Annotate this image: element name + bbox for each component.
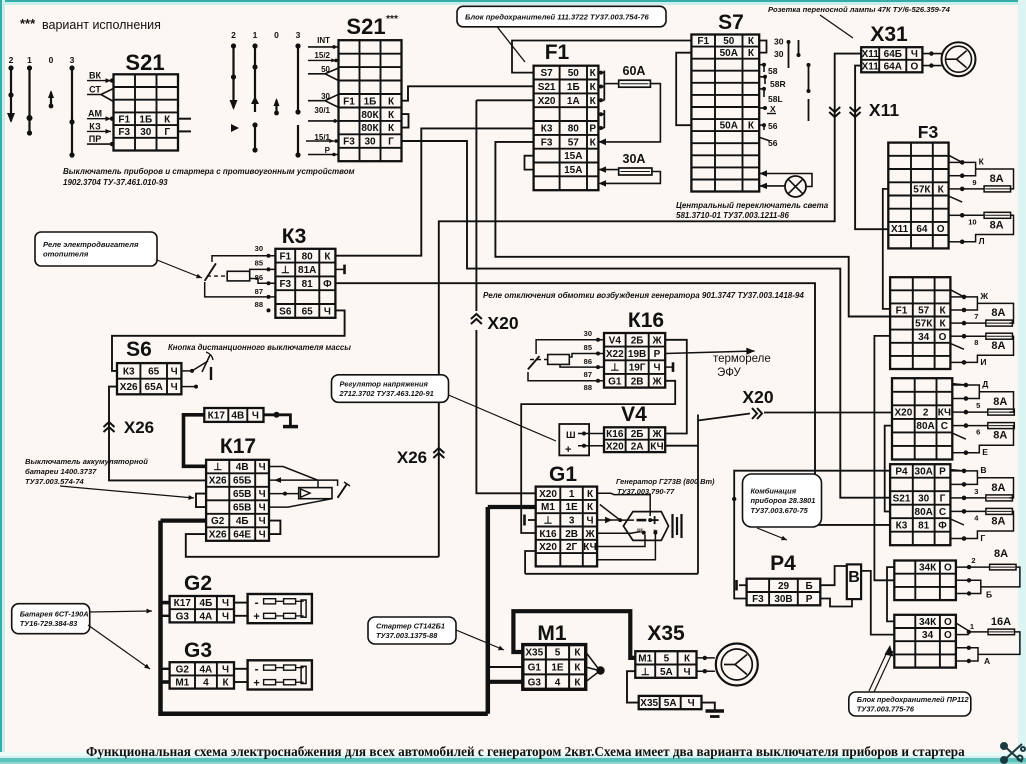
svg-text:30А: 30А: [915, 467, 933, 478]
К3 relay wiring: [212, 256, 275, 262]
G1 ground terminal left: [528, 519, 536, 521]
svg-text:7: 7: [974, 312, 978, 321]
ammeter В box: [847, 564, 861, 599]
lead 15/2: [308, 58, 336, 62]
svg-text:Выключатель аккумуляторной: Выключатель аккумуляторной: [25, 457, 148, 466]
label thermal relay: [713, 353, 771, 379]
svg-text:5А: 5А: [664, 698, 677, 709]
svg-text:А: А: [984, 656, 990, 666]
svg-text:88: 88: [255, 300, 263, 309]
S7 right 30 bracket: [759, 41, 766, 53]
svg-text:В: В: [848, 569, 860, 586]
svg-text:4А: 4А: [200, 611, 213, 622]
svg-text:Реле отключения обмотки возбуж: Реле отключения обмотки возбуждения гене…: [483, 291, 804, 300]
К3 pin dots: [267, 254, 271, 258]
svg-text:INT: INT: [317, 36, 330, 45]
svg-text:G1: G1: [608, 376, 622, 387]
svg-text:0: 0: [274, 30, 279, 40]
svg-text:F3: F3: [541, 137, 553, 148]
svg-text:G2: G2: [211, 516, 225, 527]
thick wire G1.М1 row: [488, 505, 536, 509]
svg-text:X20: X20: [487, 313, 518, 333]
wire X20 vertical to bottom net: [697, 415, 699, 574]
svg-text:8А: 8А: [991, 307, 1005, 319]
callout arrow to М1: [456, 630, 504, 650]
svg-text:S21: S21: [346, 14, 385, 39]
svg-text:О: О: [944, 563, 952, 574]
svg-text:К16: К16: [606, 429, 624, 440]
svg-text:Ч: Ч: [171, 367, 178, 378]
svg-text:V4: V4: [609, 335, 622, 346]
svg-text:X20: X20: [538, 96, 556, 107]
svg-text:Р: Р: [939, 467, 946, 478]
К3 coil: [227, 271, 250, 281]
connector X35-5А mini table: [639, 696, 702, 709]
S21-variant pin labels: [314, 36, 330, 155]
svg-text:80А: 80А: [915, 507, 933, 518]
svg-text:G2: G2: [184, 572, 212, 595]
К16 ground stub row3: [665, 366, 672, 368]
svg-text:4: 4: [555, 678, 561, 689]
contact link vertical: [964, 297, 977, 310]
bracket 34К net E-F: [887, 567, 894, 621]
wire P4.Б to В box: [820, 566, 847, 585]
F1 right stub row4: [598, 113, 604, 115]
svg-text:Ч: Ч: [259, 462, 266, 473]
svg-text:30: 30: [140, 127, 152, 138]
svg-text:2712.3702 ТУ37.463.120-91: 2712.3702 ТУ37.463.120-91: [339, 389, 434, 398]
F1 row6 stub: [598, 141, 604, 143]
portable lamp socket symbol: [942, 42, 976, 76]
svg-text:О: О: [944, 630, 952, 641]
svg-text:F1: F1: [896, 306, 908, 317]
К16 coil: [548, 355, 570, 365]
svg-text:К: К: [748, 36, 755, 47]
F bracket rows3-4: [956, 648, 978, 661]
callout: heater motor relay: [35, 232, 157, 266]
svg-text:G3: G3: [184, 639, 212, 662]
wire fuse2 loop: [966, 425, 988, 427]
svg-text:К: К: [590, 68, 597, 79]
svg-text:15А: 15А: [564, 165, 582, 176]
svg-text:65: 65: [302, 307, 314, 318]
К17 contact: [338, 485, 347, 498]
svg-text:X26: X26: [209, 476, 227, 487]
svg-text:К17: К17: [208, 411, 226, 422]
svg-text:⊥: ⊥: [281, 265, 290, 276]
svg-text:80: 80: [568, 124, 580, 135]
svg-text:56: 56: [768, 121, 778, 131]
position bar 1: [28, 68, 30, 121]
connector P4 table: [747, 579, 821, 606]
connector G2 table: [170, 596, 234, 622]
svg-text:2В: 2В: [631, 376, 644, 387]
wire X20 to fuse C: [764, 412, 892, 414]
svg-text:4Б: 4Б: [236, 516, 249, 527]
svg-text:батареи 1400.3737: батареи 1400.3737: [25, 467, 97, 476]
svg-text:отопителя: отопителя: [43, 250, 89, 259]
svg-text:3: 3: [70, 55, 75, 65]
svg-text:3: 3: [569, 516, 575, 527]
svg-text:2: 2: [971, 556, 975, 565]
svg-text:15/2: 15/2: [314, 51, 330, 60]
svg-text:Ш: Ш: [566, 430, 576, 441]
svg-text:1: 1: [27, 55, 32, 65]
wire to fuse 1: [979, 392, 1013, 412]
svg-text:1Е: 1Е: [565, 502, 578, 513]
svg-text:X20: X20: [539, 489, 557, 500]
svg-text:87: 87: [255, 287, 263, 296]
variant bar 0: [275, 100, 277, 113]
wire 34 net B to E: [874, 336, 894, 580]
fuse table F3-C: [892, 378, 952, 459]
connector V4 table: [604, 427, 665, 452]
callout: instrument cluster: [743, 474, 822, 527]
svg-text:К17: К17: [174, 598, 192, 609]
variant bar 3: [297, 46, 299, 112]
wire fuse D row1 to P4: [734, 471, 890, 599]
svg-text:Г: Г: [164, 127, 170, 138]
svg-text:Ч: Ч: [911, 49, 918, 60]
svg-text:X20: X20: [539, 542, 557, 553]
К3 dashed link: [207, 275, 227, 277]
svg-text:ТУ16-729.384-83: ТУ16-729.384-83: [20, 619, 78, 628]
thick bus bottom: [158, 712, 488, 717]
svg-text:85: 85: [255, 259, 263, 268]
svg-text:К: К: [979, 156, 985, 166]
svg-text:F3: F3: [279, 279, 291, 290]
svg-text:X35: X35: [640, 698, 658, 709]
svg-text:57: 57: [568, 137, 580, 148]
svg-text:F1: F1: [697, 36, 709, 47]
svg-text:8А: 8А: [991, 482, 1005, 494]
svg-text:F1: F1: [279, 251, 291, 262]
svg-text:К: К: [222, 678, 229, 689]
К3 ground stub row2: [337, 268, 345, 270]
svg-text:2: 2: [923, 408, 929, 419]
svg-text:3: 3: [974, 487, 978, 496]
F row2 wire to fuse: [956, 634, 969, 636]
leader line to X31: [820, 15, 853, 38]
svg-text:S7: S7: [718, 11, 744, 34]
svg-text:Р: Р: [806, 594, 813, 605]
F diag row1: [956, 623, 969, 631]
connector S7 table: [691, 35, 759, 192]
svg-text:4В: 4В: [236, 462, 249, 473]
svg-text:К: К: [587, 502, 594, 513]
svg-text:Р: Р: [654, 349, 661, 360]
relay К16 table: [604, 333, 665, 388]
wire X11-64Б net: [439, 54, 861, 557]
svg-text:15А: 15А: [564, 151, 582, 162]
К16 pin dots: [596, 338, 600, 342]
svg-text:80А: 80А: [916, 421, 934, 432]
fuse 7: [986, 320, 1013, 326]
note: variant of execution: [20, 16, 161, 32]
svg-text:Д: Д: [982, 379, 988, 389]
S7 contact dash 3: [808, 63, 810, 93]
К3 contact: [205, 263, 216, 281]
svg-text:Ж: Ж: [651, 429, 662, 440]
fuse 30A: [619, 168, 652, 175]
svg-text:X: X: [770, 104, 776, 114]
svg-text:F3: F3: [752, 594, 764, 605]
S21 variant jumper 80К rows: [402, 114, 409, 128]
svg-text:Реле электродвигателя: Реле электродвигателя: [43, 240, 139, 249]
lead ВК: [87, 78, 111, 83]
svg-text:О: О: [944, 617, 952, 628]
lead 30 fork: [308, 94, 339, 100]
svg-text:87: 87: [584, 370, 592, 379]
svg-text:К: К: [574, 663, 581, 674]
svg-text:Ч: Ч: [688, 698, 695, 709]
svg-text:64А: 64А: [884, 62, 902, 73]
svg-text:2: 2: [9, 55, 14, 65]
caption: central light switch: [676, 201, 829, 220]
wire X20-1 net vertical lower: [476, 330, 535, 493]
connector X31 table: [861, 47, 922, 72]
svg-text:Ч: Ч: [259, 530, 266, 541]
connector S6 table: [117, 363, 181, 394]
wire X20 bottom horizontal: [525, 573, 698, 575]
svg-text:ПР: ПР: [89, 134, 101, 144]
battery symbol G3: [248, 660, 312, 689]
svg-text:S6: S6: [279, 307, 292, 318]
wire fuse1 to contact: [966, 411, 988, 413]
svg-text:2Г: 2Г: [566, 542, 578, 553]
svg-text:30: 30: [774, 37, 784, 47]
S7 right stub 58R: [759, 76, 765, 78]
svg-text:65Б: 65Б: [233, 476, 251, 487]
svg-text:30А: 30А: [623, 152, 646, 166]
contact dots and stubs: [950, 469, 966, 541]
svg-text:Р: Р: [325, 146, 331, 155]
svg-text:С: С: [941, 421, 948, 432]
svg-text:57: 57: [918, 306, 930, 317]
svg-text:S6: S6: [126, 338, 152, 361]
contact link vertical: [966, 385, 979, 399]
svg-text:85: 85: [584, 343, 592, 352]
svg-text:К: К: [587, 489, 594, 500]
variant bar 2: [232, 46, 234, 108]
svg-text:56: 56: [768, 138, 778, 148]
wire S21.К jumper to F1: [402, 86, 534, 100]
svg-text:F3: F3: [918, 122, 939, 142]
svg-text:К: К: [164, 114, 171, 125]
svg-text:***: ***: [20, 16, 36, 31]
svg-text:4А: 4А: [200, 664, 213, 675]
wire В box to fuse F: [861, 571, 894, 635]
svg-text:Ж: Ж: [651, 376, 662, 387]
svg-text:58: 58: [768, 66, 778, 76]
svg-text:Ч: Ч: [222, 611, 229, 622]
svg-text:1Е: 1Е: [551, 663, 564, 674]
svg-text:Ф: Ф: [323, 279, 332, 290]
svg-text:Ч: Ч: [222, 598, 229, 609]
contact link vertical: [964, 471, 977, 485]
svg-text:50: 50: [568, 68, 580, 79]
S21 right stub Г: [178, 130, 192, 132]
S7 contact dash 4: [808, 99, 810, 121]
svg-text:Кнопка дистанционного выключат: Кнопка дистанционного выключателя массы: [168, 343, 351, 352]
G1 generator wiring: [597, 493, 650, 516]
svg-text:К3: К3: [282, 225, 307, 248]
generator symbol G1: [623, 512, 668, 541]
lead 15/1: [306, 139, 334, 143]
svg-text:Г: Г: [940, 494, 946, 505]
М1 starter contact lines: [586, 652, 599, 670]
callout leader to V4: [449, 395, 557, 441]
svg-text:КЧ: КЧ: [650, 442, 663, 453]
svg-text:Ч: Ч: [259, 503, 266, 514]
svg-text:К: К: [939, 319, 946, 330]
svg-text:65В: 65В: [233, 503, 251, 514]
svg-text:КЗ: КЗ: [89, 121, 101, 131]
E row1 wire to fuse: [956, 566, 990, 568]
К17 coil with arrow: [299, 488, 332, 499]
svg-text:Блок предохранителей 111.3722: Блок предохранителей 111.3722 ТУ37.003.7…: [465, 12, 649, 21]
svg-text:64Б: 64Б: [884, 49, 902, 60]
wire X11-64А net: [855, 66, 888, 230]
G2 bus stubs: [161, 601, 170, 605]
svg-text:5: 5: [664, 654, 670, 665]
svg-text:С: С: [939, 507, 946, 518]
lead АМ: [87, 116, 111, 121]
fuse 6: [988, 423, 1015, 429]
svg-text:Ч: Ч: [259, 489, 266, 500]
svg-text:X20: X20: [606, 442, 624, 453]
svg-text:50А: 50А: [720, 48, 738, 59]
fuse 60A: [619, 80, 651, 87]
bracket G1.X20-2Г: [525, 551, 536, 574]
wire fuse1 to contact: [964, 322, 986, 324]
svg-text:Ч: Ч: [683, 667, 690, 678]
svg-text:⊥: ⊥: [641, 667, 650, 678]
lead СТ fork: [87, 89, 114, 95]
callout: battery 6СТ-190А: [12, 604, 90, 634]
wire X20-1А net to F1: [476, 99, 533, 101]
svg-text:81: 81: [302, 279, 314, 290]
svg-text:X20: X20: [895, 408, 913, 419]
fuse 5: [988, 409, 1015, 415]
wire S21-30 net: [402, 141, 891, 498]
wire X31 to socket row1: [922, 53, 941, 55]
svg-text:+: +: [253, 677, 259, 689]
svg-text:К: К: [748, 48, 755, 59]
svg-text:19Г: 19Г: [629, 363, 646, 374]
fuse 3: [986, 495, 1013, 501]
К16 relay wiring: [536, 340, 604, 354]
wire fuse2 loop: [964, 335, 986, 337]
wire К16.G1-2В to G1: [521, 381, 675, 533]
svg-text:5: 5: [555, 648, 561, 659]
svg-text:16А: 16А: [991, 616, 1011, 628]
svg-text:2Б: 2Б: [631, 335, 644, 346]
contact link vertical: [962, 162, 975, 175]
svg-text:30: 30: [255, 244, 263, 253]
К3 pin numbers: [255, 244, 263, 309]
svg-text:50А: 50А: [720, 121, 738, 132]
svg-text:1Б: 1Б: [364, 96, 377, 107]
svg-text:1: 1: [970, 622, 974, 631]
svg-text:ЭФУ: ЭФУ: [717, 367, 741, 379]
position bar 3: [71, 68, 73, 155]
wire F1 to S7: [512, 41, 691, 73]
fuse 4: [986, 508, 1013, 514]
S7 lamp wire bottom: [759, 185, 785, 187]
svg-text:30/1: 30/1: [314, 106, 330, 115]
regulator V4 box: [559, 424, 589, 456]
contact diagonal: [949, 155, 963, 162]
wire X31 to socket row2: [922, 65, 941, 67]
К17 right jumper rows5-6: [269, 521, 280, 535]
wire V4.X20-2А to X20 marker: [665, 445, 698, 447]
svg-text:К: К: [748, 121, 755, 132]
G3 bus stubs: [161, 668, 170, 670]
wire fuse30A out: [604, 172, 660, 184]
callout arrow to G3: [88, 625, 150, 669]
svg-text:Батарея 6СТ-190А: Батарея 6СТ-190А: [20, 610, 89, 619]
S6 button contact symbol: [181, 370, 192, 372]
contact diagonal 2: [950, 519, 964, 525]
svg-text:К17: К17: [220, 435, 256, 458]
connector marker X20 upper: [471, 314, 482, 324]
svg-text:Ф: Ф: [938, 521, 947, 532]
wire К17.X26-64Е net: [186, 534, 439, 557]
svg-text:S21: S21: [125, 50, 164, 75]
wire mini table to ground: [702, 703, 715, 710]
switch position indicator (left S21): [9, 55, 75, 65]
svg-text:К: К: [939, 306, 946, 317]
svg-text:8А: 8А: [993, 430, 1007, 442]
contact diagonal 2: [949, 196, 963, 202]
wire fuse2 loop: [964, 510, 986, 512]
svg-text:X11: X11: [891, 224, 909, 235]
svg-text:10: 10: [968, 217, 976, 226]
S7 right stub 56a: [759, 124, 764, 126]
wire F1-57 net: [495, 142, 890, 317]
fuse 8: [986, 333, 1013, 339]
relay М1 table: [523, 645, 586, 690]
svg-text:34: 34: [918, 332, 930, 343]
svg-text:О: О: [939, 332, 947, 343]
svg-text:81: 81: [918, 521, 930, 532]
svg-text:8А: 8А: [990, 173, 1004, 185]
svg-text:30: 30: [584, 329, 592, 338]
svg-text:Розетка переносной лампы 47К Т: Розетка переносной лампы 47К ТУ/6-526.35…: [768, 5, 951, 14]
svg-text:1: 1: [253, 30, 258, 40]
svg-text:Ж: Ж: [651, 335, 662, 346]
svg-text:0: 0: [49, 55, 54, 65]
svg-text:-: -: [255, 662, 259, 676]
svg-text:8А: 8А: [991, 516, 1005, 528]
callout arrow to P4: [757, 528, 787, 540]
ground symbol X35: [706, 711, 725, 717]
svg-text:К: К: [574, 648, 581, 659]
svg-text:80К: 80К: [361, 110, 379, 121]
svg-text:приборов 28.3801: приборов 28.3801: [751, 496, 816, 505]
svg-text:⊥: ⊥: [213, 462, 222, 473]
wire X20-1А net vertical upper: [475, 100, 477, 311]
X35 socket wires: [697, 657, 715, 659]
switch position indicator (variant S21): [231, 30, 301, 40]
connector marker X20 right: [752, 408, 762, 419]
svg-text:Регулятор напряжения: Регулятор напряжения: [340, 379, 429, 388]
svg-text:Функциональная схема электросн: Функциональная схема электроснабжения дл…: [86, 744, 965, 759]
caption: instrument and starter switch: [63, 167, 355, 187]
svg-text:К: К: [938, 185, 945, 196]
svg-text:термореле: термореле: [713, 353, 771, 365]
